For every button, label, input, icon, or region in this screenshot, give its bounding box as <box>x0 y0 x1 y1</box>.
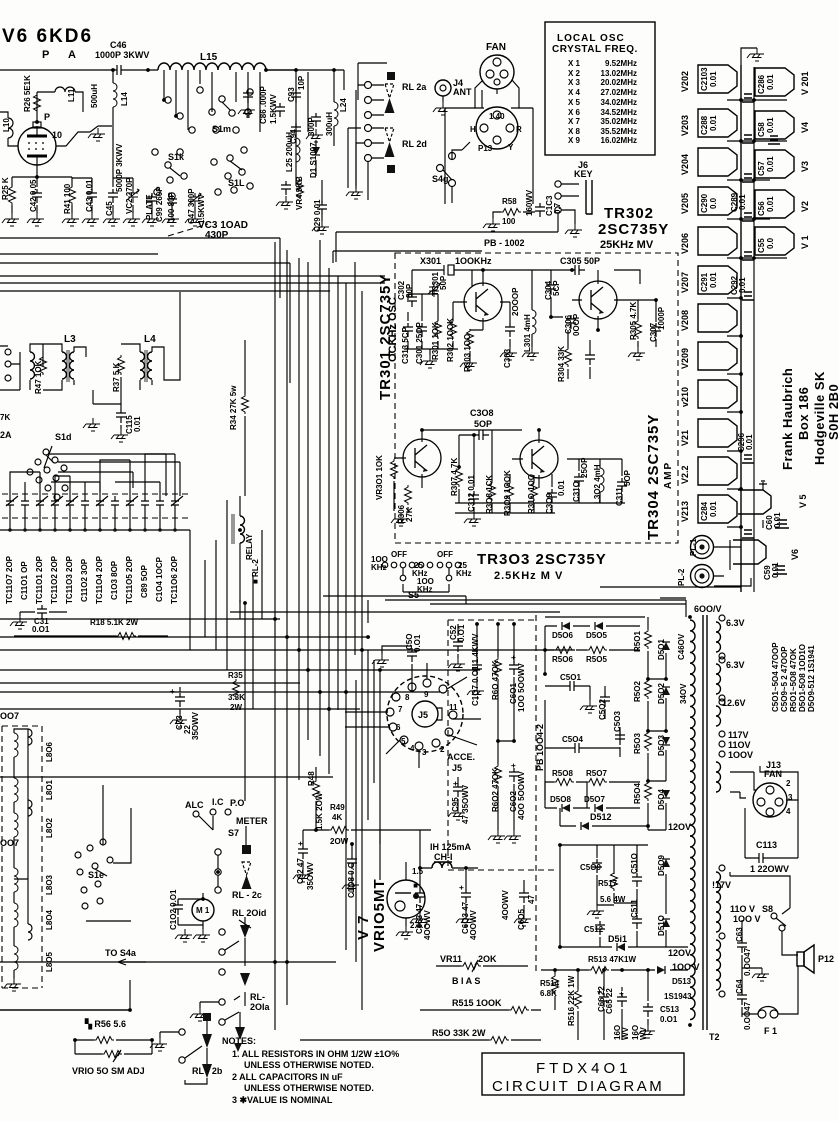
svg-text:9: 9 <box>424 690 429 699</box>
svg-text:0.0: 0.0 <box>709 197 718 209</box>
svg-text:Frank Haubrich: Frank Haubrich <box>780 368 795 470</box>
capacitor C64 <box>737 991 747 1005</box>
svg-text:100 80P: 100 80P <box>167 192 176 222</box>
coil L805 <box>14 946 18 970</box>
ground gc303 <box>500 347 517 360</box>
svg-text:11O V: 11O V <box>730 904 755 914</box>
ground g10 <box>162 213 179 226</box>
svg-text:D5O9: D5O9 <box>657 855 666 876</box>
svg-text:0.01: 0.01 <box>557 480 566 496</box>
capacitor C52 <box>453 638 463 652</box>
ground g4 <box>62 213 79 226</box>
wire osc mid <box>404 294 458 355</box>
svg-text:L11: L11 <box>67 88 76 102</box>
svg-text:2.5KHz M V: 2.5KHz M V <box>494 570 563 582</box>
svg-text:R515 1OOK: R515 1OOK <box>452 998 502 1008</box>
resistor R302 <box>450 319 457 339</box>
resistor R310 <box>531 481 538 501</box>
svg-text:X 8: X 8 <box>568 127 581 136</box>
svg-text:3.3K: 3.3K <box>228 693 245 702</box>
svg-text:RL - 2c: RL - 2c <box>232 890 262 900</box>
resistor R303 <box>467 329 474 349</box>
transformer T2 sec1 <box>716 622 721 652</box>
svg-text:X 4: X 4 <box>568 88 581 97</box>
ground gl805 <box>4 978 21 991</box>
svg-text:C92 47: C92 47 <box>296 858 305 884</box>
capacitor C311 <box>617 478 627 492</box>
svg-text:3 ✱VALUE IS NOMINAL: 3 ✱VALUE IS NOMINAL <box>232 1095 333 1105</box>
diode D511 <box>617 943 625 951</box>
ground gr303 <box>460 357 477 370</box>
svg-text:I.C: I.C <box>212 797 224 807</box>
wire verticals at left of TRbox <box>280 238 362 600</box>
svg-text:X 3: X 3 <box>568 78 581 87</box>
ground g6 <box>103 213 120 226</box>
svg-text:TR304 2SC735Y: TR304 2SC735Y <box>645 414 662 540</box>
svg-text:OO7: OO7 <box>0 711 19 721</box>
switch S1d <box>27 446 68 500</box>
dashed box cap bank <box>2 494 190 518</box>
resistor R508 <box>554 779 574 786</box>
wire capbank tops <box>10 454 175 496</box>
svg-text:RL 2Oid: RL 2Oid <box>232 908 266 918</box>
switch S4g <box>437 153 456 187</box>
svg-text:12.6V: 12.6V <box>722 698 746 708</box>
resistor R505 <box>587 647 607 654</box>
capacitor C108 <box>347 855 357 869</box>
heater V212 <box>698 457 737 485</box>
svg-text:RELAY: RELAY <box>245 533 254 560</box>
coil L301 <box>532 310 536 334</box>
ground gc92 <box>293 869 310 882</box>
resistor R34 <box>242 394 249 414</box>
transformer T2 sec4 <box>716 762 721 792</box>
svg-text:R34 27K 5w: R34 27K 5w <box>229 385 238 430</box>
svg-text:D512: D512 <box>590 812 612 822</box>
capacitor C45 <box>108 189 118 203</box>
svg-text:D5O8: D5O8 <box>550 795 571 804</box>
svg-text:RL - 2b: RL - 2b <box>192 1066 223 1076</box>
svg-text:OO7: OO7 <box>0 838 19 848</box>
resistor R58 <box>501 209 521 216</box>
diode D502 <box>662 687 670 695</box>
svg-text:R5O5: R5O5 <box>586 655 607 664</box>
capacitor C304b <box>585 351 595 365</box>
ground g8 <box>238 104 255 117</box>
resistor R602 <box>495 764 502 784</box>
svg-text:+: + <box>296 841 305 846</box>
svg-text:C305 50P: C305 50P <box>560 256 600 266</box>
svg-text:L4: L4 <box>144 334 156 345</box>
svg-text:5000P 3KWV: 5000P 3KWV <box>115 143 124 192</box>
ground gr305 <box>628 347 645 360</box>
svg-text:LOCAL OSC: LOCAL OSC <box>557 33 625 44</box>
capacitor C99b <box>317 201 327 215</box>
svg-text:R5O8: R5O8 <box>552 769 573 778</box>
meter M1 <box>192 899 214 921</box>
switch S8 <box>771 913 786 931</box>
wire heater bus2 <box>753 67 755 592</box>
svg-text:4OOWV: 4OOWV <box>469 910 478 940</box>
resistor R506 <box>554 647 574 654</box>
switch S7 <box>193 809 231 893</box>
title box <box>482 1053 684 1095</box>
svg-text:C46OV: C46OV <box>677 633 686 660</box>
svg-text:PL-1: PL-1 <box>689 538 698 556</box>
svg-text:D5O5: D5O5 <box>586 631 607 640</box>
capacitor C313 <box>403 323 413 337</box>
coil L15 <box>158 63 266 70</box>
wire psu low <box>560 845 688 947</box>
ground g3 <box>27 213 44 226</box>
wires second row <box>422 430 625 513</box>
relay RL2d contacts <box>365 125 385 162</box>
capacitor C504 <box>571 743 585 753</box>
svg-text:2OIa: 2OIa <box>250 1002 271 1012</box>
wire heater rows <box>727 100 787 527</box>
svg-text:D1 S1007: D1 S1007 <box>309 142 318 178</box>
svg-text:1OO 5OOWV: 1OO 5OOWV <box>517 662 526 712</box>
resistor VR10 <box>102 1051 122 1058</box>
wire key lines <box>445 108 533 204</box>
transformer T2 sec3 <box>716 706 721 726</box>
svg-text:C1O4 1OCP: C1O4 1OCP <box>155 556 164 602</box>
svg-text:S7: S7 <box>228 828 239 838</box>
resistor VR4 <box>297 179 304 199</box>
svg-text:RL 2d: RL 2d <box>402 139 427 149</box>
wire filler verticals <box>190 500 262 709</box>
ground grl <box>190 1008 207 1021</box>
svg-text:V 201: V 201 <box>800 71 810 95</box>
capacitor C301 <box>417 323 427 337</box>
svg-text:R301 1OK: R301 1OK <box>431 322 440 360</box>
capacitor C73 <box>175 693 185 707</box>
svg-text:L301 4mH: L301 4mH <box>523 314 532 352</box>
resistor R503 <box>645 731 652 751</box>
capacitor C66 <box>599 993 609 1007</box>
transistor TR303t <box>403 439 441 477</box>
svg-text:C5O9~5 2 47OOP: C5O9~5 2 47OOP <box>780 646 789 712</box>
svg-text:R3O8 1CK: R3O8 1CK <box>485 475 494 514</box>
svg-text:R5O4: R5O4 <box>633 783 642 804</box>
resistor R26 <box>34 93 41 113</box>
svg-text:C86 .000P: C86 .000P <box>259 86 268 124</box>
svg-text:NOTES:: NOTES: <box>222 1036 256 1046</box>
svg-text:V4: V4 <box>800 122 810 133</box>
svg-text:METER: METER <box>236 816 268 826</box>
svg-text:R6O 47OK: R6O 47OK <box>491 660 500 700</box>
ground V5 <box>759 481 767 490</box>
svg-text:4: 4 <box>410 744 415 753</box>
wire V5V6 <box>600 520 763 598</box>
plug P13 <box>476 107 518 149</box>
svg-text:5: 5 <box>401 737 406 746</box>
ground gc653 <box>410 913 427 926</box>
switch bank S1k region <box>152 149 187 199</box>
heater V213 <box>698 495 737 523</box>
svg-text:C1O3 8OP: C1O3 8OP <box>110 560 119 600</box>
svg-text:V 1: V 1 <box>800 235 810 249</box>
diode D512 <box>581 822 589 830</box>
capacitor C107 <box>472 661 482 675</box>
svg-text:TR3O3 2SC735Y: TR3O3 2SC735Y <box>477 551 607 568</box>
capacitor C60 <box>775 520 789 528</box>
ground g2 <box>2 213 19 226</box>
svg-text:TC11O3 2OP: TC11O3 2OP <box>65 555 74 604</box>
ground gc31 <box>10 616 27 629</box>
svg-text:C291: C291 <box>700 272 709 292</box>
transistor TR301 <box>464 283 502 321</box>
svg-text:J5: J5 <box>418 710 428 720</box>
capacitor C502 <box>600 693 610 707</box>
svg-text:50P: 50P <box>439 275 448 290</box>
svg-text:D5O9-512 1S1941: D5O9-512 1S1941 <box>807 645 816 712</box>
capacitor C653 <box>415 889 425 903</box>
svg-text:V207: V207 <box>680 272 690 293</box>
capacitor C510 <box>632 873 642 887</box>
transistor TR304t <box>520 440 558 478</box>
wire fan leads <box>475 80 519 108</box>
resistor R306 <box>405 485 412 505</box>
diode D505 <box>595 622 603 630</box>
plug PL-2 <box>691 565 714 588</box>
dash-dot PB1004 border <box>448 615 558 972</box>
svg-text:1OOKHz: 1OOKHz <box>455 256 492 266</box>
svg-text:C5O9: C5O9 <box>580 863 601 872</box>
svg-text:P12: P12 <box>818 954 834 964</box>
svg-text:KEY: KEY <box>574 169 593 179</box>
transistor TR302b <box>579 281 617 319</box>
svg-text:V6: V6 <box>790 549 800 560</box>
svg-text:D5O2: D5O2 <box>657 683 666 704</box>
svg-text:C5O1: C5O1 <box>560 673 581 682</box>
coil L25 <box>296 138 300 162</box>
svg-text:J5: J5 <box>452 763 462 773</box>
svg-text:0.OO47: 0.OO47 <box>743 947 752 976</box>
svg-text:0.0: 0.0 <box>766 237 775 249</box>
svg-text:D5O6: D5O6 <box>552 631 573 640</box>
svg-text:0.01: 0.01 <box>745 434 754 450</box>
heater V6 <box>733 540 766 564</box>
svg-text:TC11O7 2OP: TC11O7 2OP <box>5 555 14 604</box>
ground g12 <box>306 129 323 142</box>
trimmer VC2 <box>127 189 139 203</box>
svg-text:CIRCUIT DIAGRAM: CIRCUIT DIAGRAM <box>492 1078 664 1095</box>
svg-text:4OOWV: 4OOWV <box>423 910 432 940</box>
wire cap bank bottom <box>0 515 190 530</box>
resistor R507 <box>587 779 607 786</box>
svg-text:8: 8 <box>405 693 410 702</box>
svg-text:OFF: OFF <box>437 550 453 559</box>
svg-text:R5O3: R5O3 <box>633 733 642 754</box>
ground gj4 <box>433 102 450 115</box>
coil L801 <box>14 778 18 802</box>
wire top bus lines <box>0 212 558 291</box>
svg-text:V3: V3 <box>800 161 810 172</box>
svg-text:L8O4: L8O4 <box>45 909 54 930</box>
svg-text:0.01: 0.01 <box>773 512 782 528</box>
svg-text:10P: 10P <box>297 75 306 90</box>
capacitor C46 <box>113 65 127 75</box>
svg-text:A: A <box>68 49 76 61</box>
wire psu mid <box>545 617 666 830</box>
switch bank S1L region <box>211 147 253 195</box>
svg-text:+: + <box>170 687 175 696</box>
ground gc50 <box>372 654 389 667</box>
svg-text:0.O1: 0.O1 <box>413 634 422 652</box>
resistor R48 <box>313 779 320 799</box>
svg-text:V2: V2 <box>800 201 810 212</box>
svg-text:RL 2a: RL 2a <box>402 82 427 92</box>
svg-text:VC2 270P: VC2 270P <box>125 177 134 214</box>
diode D510 <box>662 919 670 927</box>
ground gr602 <box>488 830 505 843</box>
svg-text:R58: R58 <box>502 197 517 206</box>
svg-text:TC11O2 2OP: TC11O2 2OP <box>50 555 59 604</box>
dashed box TR301 section <box>395 253 678 543</box>
svg-text:R3O9 1OOK: R3O9 1OOK <box>503 470 512 516</box>
dashed box L80x <box>2 726 42 988</box>
svg-text:R5O2: R5O2 <box>633 681 642 702</box>
trimmer VC3 label <box>168 224 208 236</box>
svg-text:0.01: 0.01 <box>709 71 718 87</box>
svg-text:25KHz MV: 25KHz MV <box>600 239 654 251</box>
svg-text:34.02MHz: 34.02MHz <box>601 98 637 107</box>
ground g1 <box>88 128 105 141</box>
svg-text:0.O1: 0.O1 <box>32 625 50 634</box>
svg-text:+: + <box>457 885 466 890</box>
svg-text:C5O4: C5O4 <box>562 735 583 744</box>
capacitor c100 <box>167 195 177 209</box>
capacitor C94 <box>291 123 301 137</box>
svg-text:C56: C56 <box>757 201 766 216</box>
capacitor C511 <box>632 915 642 929</box>
svg-text:OCKHz OSC: OCKHz OSC <box>387 297 399 362</box>
svg-text:V206: V206 <box>680 233 690 254</box>
svg-text:L15: L15 <box>200 52 218 63</box>
wire grid <box>56 126 112 146</box>
svg-text:300uH: 300uH <box>325 112 334 136</box>
plug PL-1 <box>691 536 714 559</box>
svg-text:R49: R49 <box>330 803 345 812</box>
trimmer TC301 <box>428 283 440 297</box>
svg-text:VRIO 5O SM ADJ: VRIO 5O SM ADJ <box>72 1066 145 1076</box>
svg-text:1 40: 1 40 <box>489 112 505 121</box>
svg-text:2SC735Y: 2SC735Y <box>598 221 669 238</box>
resistor R60 <box>495 657 502 677</box>
svg-text:R5O1: R5O1 <box>633 631 642 652</box>
wire 600V rail <box>230 604 686 617</box>
relay RL2a arm <box>385 84 394 98</box>
svg-text:RL-: RL- <box>250 992 265 1002</box>
svg-text:C511: C511 <box>630 899 639 918</box>
svg-text:117V: 117V <box>728 730 749 740</box>
svg-text:0.01: 0.01 <box>738 194 747 210</box>
ground g9 <box>142 213 159 226</box>
svg-text:TO S4a: TO S4a <box>105 948 137 958</box>
heater V209 <box>698 342 737 370</box>
svg-text:OFF: OFF <box>391 550 407 559</box>
diode D503 <box>662 737 670 745</box>
svg-text:C5O3: C5O3 <box>613 711 622 732</box>
svg-text:2OOOP: 2OOOP <box>511 287 520 316</box>
relay coil RL-2 <box>232 514 245 544</box>
svg-text:13.02MHz: 13.02MHz <box>601 69 637 78</box>
svg-text:PL-2: PL-2 <box>677 568 686 586</box>
wire rail 777 <box>0 776 333 778</box>
svg-text:X 2: X 2 <box>568 69 581 78</box>
wire junction dots <box>35 68 756 1042</box>
svg-text:C5O1~5O4 47OOP: C5O1~5O4 47OOP <box>771 642 780 712</box>
svg-text:1 22OWV: 1 22OWV <box>750 864 789 874</box>
svg-text:L3O2 4mH: L3O2 4mH <box>593 464 602 504</box>
wire cathode <box>12 165 72 187</box>
capacitor C93 <box>291 89 301 103</box>
svg-text:D5O1-5O8 1OD1O: D5O1-5O8 1OD1O <box>798 644 807 712</box>
capacitor C63 <box>737 939 747 953</box>
svg-text:11: 11 <box>449 703 458 712</box>
capacitor C95 <box>453 783 463 797</box>
svg-text:D5O4: D5O4 <box>657 789 666 810</box>
svg-text:X 5: X 5 <box>568 98 581 107</box>
svg-text:ANT: ANT <box>453 87 472 97</box>
capacitor C31 <box>37 605 47 619</box>
capacitor C65 <box>617 993 627 1007</box>
svg-text:C512: C512 <box>584 925 604 934</box>
resistor R41 <box>69 185 76 205</box>
resistor R309 <box>507 481 514 501</box>
svg-text:4OO 5OOWV: 4OO 5OOWV <box>517 770 526 820</box>
heater V1 <box>755 227 794 255</box>
capacitor C310 <box>574 473 584 487</box>
transformer T2 taps <box>719 731 725 737</box>
wire plate <box>36 92 38 122</box>
resistor R301 <box>435 319 442 339</box>
svg-text:ALC: ALC <box>185 800 204 810</box>
svg-text:0.01: 0.01 <box>766 117 775 133</box>
svg-text:V203: V203 <box>680 115 690 136</box>
svg-text:R514: R514 <box>540 979 560 988</box>
ground gm1 <box>175 929 192 942</box>
heater V2 <box>755 190 794 218</box>
svg-text:1000P: 1000P <box>657 306 666 330</box>
svg-text:0.01: 0.01 <box>766 156 775 172</box>
socket J5 <box>387 676 463 752</box>
svg-text:S8: S8 <box>762 904 773 914</box>
svg-text:L25 200uH: L25 200uH <box>285 132 294 172</box>
svg-text:V6 6KD6: V6 6KD6 <box>2 26 93 47</box>
svg-text:35.02MHz: 35.02MHz <box>601 117 637 126</box>
diode D513 <box>657 966 665 974</box>
svg-text:R513 47K1W: R513 47K1W <box>588 955 636 964</box>
svg-text:V202: V202 <box>680 71 690 92</box>
resistor R504 <box>645 781 652 801</box>
wire J5 connections <box>345 663 481 768</box>
coil L10 <box>8 118 13 138</box>
relay RL-2c <box>242 845 251 854</box>
capacitor C99 <box>147 193 157 207</box>
coil L24 <box>334 102 338 126</box>
svg-text:V209: V209 <box>680 348 690 369</box>
svg-text:+: + <box>509 763 518 768</box>
capacitor C302 <box>407 293 417 307</box>
IF transformer left <box>0 346 20 390</box>
svg-text:C31O: C31O <box>572 481 581 502</box>
svg-text:C47 300P: C47 300P <box>187 188 196 224</box>
socket J5 pins <box>386 679 457 750</box>
diode D507 <box>595 804 603 812</box>
fuse F1 <box>758 1010 766 1018</box>
